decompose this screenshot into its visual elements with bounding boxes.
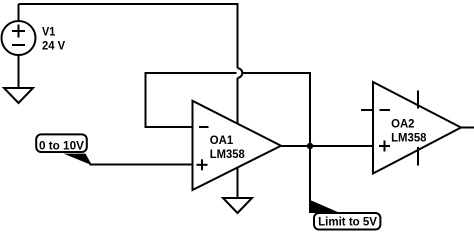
ground symbol at V1 <box>4 88 33 103</box>
wire OA1 output to OA2 non-inverting input <box>281 145 373 147</box>
svg-text:OA1: OA1 <box>210 135 234 147</box>
wire junction down to Limit to 5V label <box>309 146 311 201</box>
wire OA1 V+ pin stub <box>237 78 239 124</box>
OA2 V+ pin stub <box>417 91 419 109</box>
OA2 V- pin stub <box>417 147 419 166</box>
svg-text:OA2: OA2 <box>391 118 414 130</box>
OA2 inverting input stub <box>361 109 373 111</box>
op-amp OA2 <box>373 82 461 174</box>
svg-text:Limit to 5V: Limit to 5V <box>318 215 377 229</box>
svg-text:0 to 10V: 0 to 10V <box>39 138 84 152</box>
junction node at OA1 output <box>307 143 313 149</box>
wire OA2 output <box>461 127 474 129</box>
wire V1 bottom lead to ground <box>18 55 20 88</box>
net label Limit to 5V <box>309 200 380 230</box>
wire top rail from V1 to OA1 V+ pin <box>19 4 238 68</box>
wire V1 top lead <box>18 4 20 21</box>
node label 0 to 10V <box>36 134 92 165</box>
svg-text:LM358: LM358 <box>210 149 246 161</box>
wire OA1 feedback: inverting input segment <box>146 73 237 127</box>
op-amp OA1 <box>193 101 282 190</box>
wire feedback continues right of hop to output node <box>243 73 310 146</box>
wire OA1 V- pin to ground <box>237 168 239 199</box>
voltage source V1 <box>2 21 36 55</box>
ground symbol at OA1 V- <box>223 198 252 213</box>
svg-text:LM358: LM358 <box>391 132 427 144</box>
wire hop over feedback wire <box>238 68 243 78</box>
svg-text:24 V: 24 V <box>42 41 66 53</box>
wire 0 to 10V label to OA1 non-inverting input <box>90 164 193 166</box>
svg-text:V1: V1 <box>42 27 56 39</box>
